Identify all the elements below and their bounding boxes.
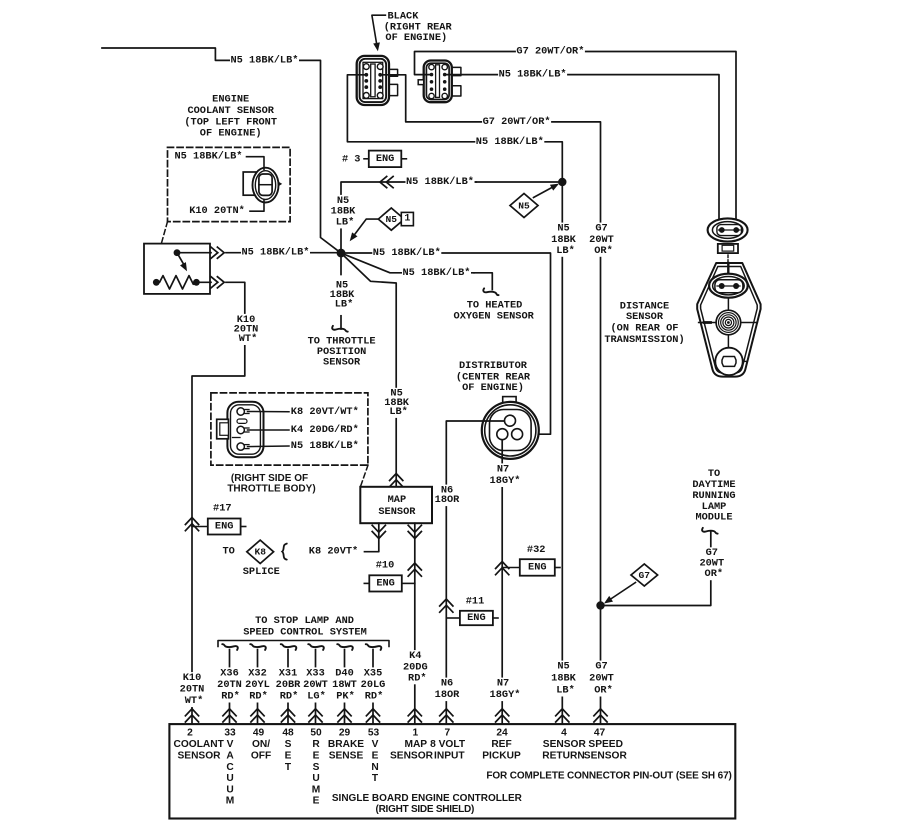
svg-text:X33: X33 (306, 667, 325, 679)
svg-text:#11: #11 (466, 596, 485, 608)
svg-text:N5 18BK/LB*: N5 18BK/LB* (291, 440, 359, 452)
svg-text:COOLANT: COOLANT (174, 739, 225, 750)
svg-text:53: 53 (368, 728, 380, 739)
svg-text:TO: TO (222, 546, 234, 558)
inline connector chevrons above SBEC (185, 709, 198, 722)
svg-text:K8: K8 (254, 547, 266, 558)
coolant sensor element box (144, 244, 210, 294)
svg-text:S: S (313, 762, 320, 773)
dashed box coolant sensor connector (168, 147, 291, 221)
svg-text:SENSE: SENSE (329, 750, 364, 761)
splice diamond K8 (247, 540, 274, 563)
wire N5 18BK LB* to pin 4 (561, 182, 563, 724)
C2 right lock tabs (452, 67, 461, 75)
svg-text:G7 20WT/OR*: G7 20WT/OR* (483, 116, 551, 128)
svg-text:N7: N7 (497, 463, 509, 475)
svg-text:20TN: 20TN (217, 679, 242, 691)
splice diamond N5-1 with arrow (352, 219, 378, 238)
svg-text:U: U (226, 773, 233, 784)
svg-text:N5: N5 (386, 214, 398, 225)
svg-text:PK*: PK* (336, 691, 355, 703)
wires out of box with >> (181, 252, 212, 254)
wire N5 18BK/LB* to distance sensor (445, 75, 719, 220)
svg-text:G7: G7 (639, 570, 651, 581)
svg-text:K8 20VT*: K8 20VT* (309, 546, 358, 558)
wire N5 to heated oxygen sensor (341, 253, 474, 273)
svg-text:#17: #17 (213, 503, 232, 515)
svg-text:LB*: LB* (336, 216, 355, 228)
coolant sensor connector symbol (243, 172, 257, 195)
svg-text:WT*: WT* (185, 695, 204, 707)
svg-text:K10: K10 (183, 672, 202, 684)
svg-text:N7: N7 (497, 678, 509, 690)
svg-text:20BR: 20BR (276, 679, 302, 691)
svg-text:OF ENGINE): OF ENGINE) (385, 32, 447, 44)
svg-text:29: 29 (339, 728, 351, 739)
wire G7 20WT/OR* top to distance sensor (415, 52, 737, 220)
svg-text:(ON REAR OF: (ON REAR OF (611, 323, 679, 335)
wire stubs inside dashed box (247, 157, 265, 170)
svg-text:48: 48 (282, 728, 294, 739)
connector ref #10 ENG (364, 582, 369, 584)
svg-text:18GY*: 18GY* (490, 689, 521, 701)
svg-text:N5 18BK/LB*: N5 18BK/LB* (231, 54, 299, 66)
svg-text:E: E (313, 751, 320, 762)
svg-text:# 3: # 3 (342, 153, 361, 165)
svg-text:OR*: OR* (705, 568, 724, 580)
N5 G7 bottom labels (557, 661, 570, 673)
svg-text:N5: N5 (557, 223, 569, 235)
wire to splice junction with << (341, 182, 476, 253)
sensor connector oval (709, 274, 748, 298)
svg-text:ENG: ENG (215, 521, 234, 533)
stop lamp branch wire (344, 650, 346, 724)
svg-text:U: U (226, 784, 233, 795)
splice diamond N5 with arrow to right junction (534, 185, 557, 198)
svg-text:49: 49 (253, 728, 265, 739)
svg-text:COOLANT SENSOR: COOLANT SENSOR (187, 105, 274, 117)
stop lamp branch wire (257, 650, 259, 724)
dashed leader to thermistor box (162, 222, 168, 243)
stop lamp branch wire (287, 650, 289, 724)
splice diamond G7 with arrow (607, 583, 636, 602)
svg-text:MODULE: MODULE (695, 512, 732, 524)
svg-text:U: U (312, 773, 319, 784)
svg-text:K8 20VT/WT*: K8 20VT/WT* (291, 406, 359, 418)
svg-text:FOR COMPLETE CONNECTOR PIN-OUT: FOR COMPLETE CONNECTOR PIN-OUT (SEE SH 6… (486, 770, 731, 781)
svg-text:47: 47 (594, 728, 606, 739)
svg-text:MAP: MAP (388, 494, 407, 506)
svg-text:T: T (285, 762, 292, 773)
svg-text:N5 18BK/LB*: N5 18BK/LB* (242, 247, 310, 259)
wire K4 20DG RD* MAP to pin 1 (414, 523, 416, 723)
svg-text:RD*: RD* (221, 691, 240, 703)
svg-text:1: 1 (412, 728, 418, 739)
svg-text:SENSOR: SENSOR (323, 357, 361, 369)
svg-text:ENG: ENG (467, 612, 486, 624)
junction dot G7 (596, 601, 604, 609)
svg-text:ENG: ENG (376, 153, 395, 165)
stop lamp branch wire (372, 650, 374, 724)
svg-text:20TN: 20TN (180, 684, 205, 696)
stub to throttle position sensor (340, 253, 342, 275)
stop lamp branch wire (229, 650, 231, 724)
svg-text:SPLICE: SPLICE (243, 566, 280, 578)
svg-text:SENSOR: SENSOR (584, 750, 628, 761)
MAP sensor box (360, 487, 432, 523)
thermistor resistor (156, 276, 196, 289)
svg-text:V: V (372, 739, 379, 750)
svg-text:N5 18BK/LB*: N5 18BK/LB* (373, 247, 441, 259)
svg-text:LG*: LG* (307, 691, 326, 703)
svg-text:OF ENGINE): OF ENGINE) (462, 382, 524, 394)
dashed box throttle body (211, 393, 368, 465)
svg-text:8 VOLT: 8 VOLT (430, 739, 466, 750)
mounting hole (715, 348, 742, 375)
wire N5 18BK/LB* from top left (102, 48, 341, 253)
svg-text:RD*: RD* (408, 672, 427, 684)
wire K10 20TN WT* down left side (192, 282, 245, 723)
svg-text:OF ENGINE): OF ENGINE) (200, 128, 262, 140)
distance sensor body (697, 263, 760, 377)
curly to K8 label (282, 544, 287, 560)
svg-text:#10: #10 (376, 560, 395, 572)
svg-text:RETURN: RETURN (542, 750, 584, 761)
junction dot right (558, 178, 566, 186)
svg-text:N6: N6 (441, 678, 453, 690)
TPS pin leads and labels (248, 411, 290, 413)
svg-text:G7 20WT/OR*: G7 20WT/OR* (516, 46, 584, 58)
svg-text:D40: D40 (335, 667, 354, 679)
svg-text:(RIGHT SIDE OF: (RIGHT SIDE OF (231, 473, 308, 484)
svg-text:20WT: 20WT (303, 679, 328, 691)
svg-text:OFF: OFF (251, 750, 271, 761)
svg-text:TRANSMISSION): TRANSMISSION) (604, 334, 684, 346)
svg-text:N5 18BK/LB*: N5 18BK/LB* (476, 136, 544, 148)
wire N6 18OR distributor to pin 7 (446, 421, 505, 724)
svg-text:LB*: LB* (335, 298, 354, 310)
svg-text:18OR: 18OR (435, 494, 461, 506)
connector C1 black (right rear of engine) (357, 56, 389, 105)
svg-text:N5: N5 (557, 661, 569, 673)
svg-text:THROTTLE BODY): THROTTLE BODY) (227, 484, 315, 495)
svg-text:LB*: LB* (556, 685, 575, 697)
svg-text:N5: N5 (518, 200, 530, 211)
svg-text:2: 2 (187, 728, 193, 739)
svg-text:20WT: 20WT (589, 673, 614, 685)
stop lamp branch wire (315, 650, 317, 724)
junction dot center (337, 249, 346, 258)
svg-text:RD*: RD* (280, 691, 299, 703)
svg-text:TO HEATED: TO HEATED (467, 299, 523, 311)
distance sensor mating connector (708, 218, 748, 241)
svg-text:PICKUP: PICKUP (482, 750, 521, 761)
svg-text:MAP: MAP (404, 739, 427, 750)
svg-text:1: 1 (404, 214, 410, 225)
svg-text:G7: G7 (595, 223, 607, 235)
svg-text:M: M (312, 784, 321, 795)
wire N5 to MAP sensor (341, 253, 396, 487)
svg-text:RD*: RD* (365, 691, 384, 703)
svg-text:OR*: OR* (594, 245, 613, 257)
svg-text:SENSOR: SENSOR (177, 750, 221, 761)
svg-text:C: C (226, 762, 234, 773)
svg-text:SENSOR: SENSOR (390, 750, 434, 761)
mating connector neck (718, 244, 738, 253)
svg-text:M: M (226, 796, 235, 807)
svg-text:SPEED: SPEED (588, 739, 623, 750)
svg-text:OXYGEN SENSOR: OXYGEN SENSOR (454, 311, 535, 323)
svg-text:LB*: LB* (556, 245, 575, 257)
svg-text:K10 20TN*: K10 20TN* (189, 205, 245, 217)
svg-text:18BK: 18BK (551, 673, 577, 685)
svg-text:X32: X32 (248, 667, 267, 679)
wire N5 to center junction (226, 252, 341, 254)
svg-text:ON/: ON/ (252, 739, 270, 750)
label N5 18BK LB* below junction (335, 279, 348, 291)
K10 bottom label (182, 672, 202, 684)
svg-text:N5 18BK/LB*: N5 18BK/LB* (406, 176, 474, 188)
wire N5 junction to distributor (341, 253, 551, 434)
svg-text:RD*: RD* (249, 691, 268, 703)
svg-text:SINGLE BOARD ENGINE CONTROLLER: SINGLE BOARD ENGINE CONTROLLER (332, 793, 523, 804)
svg-text:E: E (372, 751, 379, 762)
svg-text:X35: X35 (364, 667, 383, 679)
svg-text:ENG: ENG (376, 577, 395, 589)
svg-text:ENGINE: ENGINE (212, 94, 249, 106)
label BLACK with leader arrow (372, 15, 386, 45)
svg-text:18WT: 18WT (332, 679, 357, 691)
svg-text:T: T (372, 773, 379, 784)
svg-text:X31: X31 (279, 667, 298, 679)
svg-text:N: N (371, 762, 378, 773)
svg-text:33: 33 (224, 728, 236, 739)
svg-text:4: 4 (561, 728, 567, 739)
distributor body (503, 397, 516, 403)
svg-text:7: 7 (444, 728, 450, 739)
svg-text:X36: X36 (220, 667, 239, 679)
svg-text:SPEED CONTROL SYSTEM: SPEED CONTROL SYSTEM (243, 627, 367, 639)
svg-text:N5 18BK/LB*: N5 18BK/LB* (403, 267, 471, 279)
svg-text:V: V (227, 739, 234, 750)
svg-text:E: E (285, 751, 292, 762)
label G7 20WT OR* mid (595, 223, 608, 235)
svg-text:INPUT: INPUT (434, 750, 465, 761)
C2 left tab (418, 80, 424, 85)
wire G7 to daytime running lamp module (601, 532, 711, 606)
svg-text:18GY*: 18GY* (490, 475, 521, 487)
svg-text:LB*: LB* (389, 406, 408, 418)
svg-text:SENSOR: SENSOR (626, 311, 664, 323)
svg-text:BRAKE: BRAKE (328, 739, 364, 750)
bracket (218, 641, 389, 647)
connector C2 (424, 61, 452, 103)
svg-text:18OR: 18OR (435, 689, 461, 701)
crosshair adjuster (727, 298, 729, 348)
svg-text:ENG: ENG (528, 562, 547, 574)
connector ref #11 ENG on N6 (440, 599, 453, 612)
svg-text:20YL: 20YL (245, 679, 270, 691)
svg-text:K4: K4 (409, 650, 421, 662)
svg-text:A: A (226, 751, 234, 762)
wire K8 20VT* from MAP to splice K8 (365, 523, 379, 552)
svg-text:N5 18BK/LB*: N5 18BK/LB* (499, 69, 567, 81)
SBEC box (169, 724, 735, 818)
svg-text:#32: #32 (527, 544, 546, 556)
svg-text:K4 20DG/RD*: K4 20DG/RD* (291, 424, 359, 436)
svg-text:S: S (285, 739, 292, 750)
svg-text:SENSOR: SENSOR (543, 739, 587, 750)
connector ref #32 ENG on N7 (496, 562, 509, 575)
connector ref #17 ENG on K10 wire (185, 518, 198, 531)
svg-text:TO STOP LAMP AND: TO STOP LAMP AND (255, 615, 354, 627)
wire C1 left pin to N5 run (347, 75, 562, 182)
svg-text:20LG: 20LG (361, 679, 386, 691)
svg-text:24: 24 (496, 728, 508, 739)
dashed leader to MAP sensor (361, 465, 369, 486)
svg-text:SENSOR: SENSOR (378, 506, 416, 518)
svg-text:R: R (312, 739, 320, 750)
svg-text:DISTRIBUTOR: DISTRIBUTOR (459, 360, 528, 372)
label N5 18BK LB* above junction (336, 195, 349, 207)
wire N7 18GY* distributor to pin 24 (501, 438, 503, 724)
svg-text:WT*: WT* (239, 333, 258, 345)
svg-text:(RIGHT SIDE SHIELD): (RIGHT SIDE SHIELD) (376, 804, 475, 815)
TPS connector symbol (227, 402, 263, 458)
svg-text:N5 18BK/LB*: N5 18BK/LB* (175, 151, 243, 163)
svg-text:REF: REF (491, 739, 511, 750)
svg-text:TO: TO (708, 468, 720, 480)
label N5 18BK LB* above MAP (390, 388, 403, 400)
svg-text:OR*: OR* (594, 685, 613, 697)
svg-text:E: E (313, 796, 320, 807)
connector ref #3 ENG (364, 158, 369, 160)
svg-text:G7: G7 (595, 661, 607, 673)
C1 right lock tabs (389, 69, 397, 76)
svg-text:50: 50 (310, 728, 322, 739)
wire C1 right pin G7 20WT/OR* (380, 75, 600, 724)
variable arm arrow (174, 249, 181, 256)
